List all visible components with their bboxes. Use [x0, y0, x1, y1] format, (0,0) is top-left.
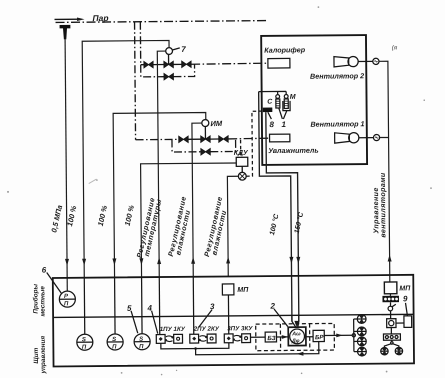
signal lamp Л3 [357, 337, 366, 346]
arrow down on feedback wire ИМ [112, 258, 116, 265]
position indicator SP2 [107, 277, 124, 350]
humidifier steam distributor [270, 134, 290, 142]
button 3КУ [242, 334, 251, 343]
steam main header pipe [56, 21, 269, 23]
actuator stem of valve 7 [168, 54, 170, 64]
svg-text:1ПУ 1КУ: 1ПУ 1КУ [160, 326, 186, 333]
actuator stem of valve ИМ [204, 126, 206, 139]
svg-text:Ѕ: Ѕ [112, 337, 116, 343]
wire БЗ to АР with arrow [276, 335, 288, 339]
svg-text:Приборыместные: Приборыместные [31, 283, 46, 316]
fan motors control bus [379, 61, 390, 282]
lamp distribution bus [354, 319, 358, 352]
feedback wire from КДУ (100%) [141, 163, 238, 277]
DUCT-BOX [245, 35, 380, 176]
control valve VIM [201, 136, 210, 142]
signal lamp Л5 [381, 347, 388, 354]
wire button station to relay 9 [396, 322, 404, 324]
link arrows 1ПУ-1КУ [165, 336, 174, 342]
svg-text:2ПУ 2КУ: 2ПУ 2КУ [193, 326, 220, 333]
wire button station to strip X2 [390, 328, 392, 334]
control wire humidity regulation to КДУ [227, 176, 239, 276]
arrow up on humidity control wire 1 [191, 257, 195, 264]
control wire temperature regulation to actuator 7 [157, 51, 167, 277]
svg-text:0,5 МПа: 0,5 МПа [49, 204, 64, 233]
Y-split wires to lamps [384, 344, 399, 348]
position indicator SP1 [76, 278, 93, 351]
signal lamp Л1 [357, 315, 366, 324]
svg-text:П: П [82, 345, 87, 351]
wet bulb sensor M terminal [284, 95, 288, 99]
lamp bus junction [352, 334, 355, 337]
starter МП2 box [384, 282, 397, 294]
regulator АР square [288, 327, 306, 346]
leader to relay 9 [406, 303, 408, 316]
starter МП1 box [222, 284, 234, 334]
svg-text:150 °С: 150 °С [293, 211, 306, 235]
svg-text:Щитуправления: Щитуправления [33, 336, 47, 375]
svg-text:2: 2 [269, 302, 275, 311]
VALVE-GROUPS [135, 44, 270, 181]
svg-text:3ПУ 3КУ: 3ПУ 3КУ [227, 325, 253, 332]
link arrows 2ПУ-2КУ [198, 336, 207, 342]
junction on bottom bus [194, 347, 197, 350]
button 1КУ [174, 334, 183, 343]
КДУ drive stem [241, 166, 243, 172]
fan 1 symbol [335, 133, 359, 144]
leader to label 7 [173, 48, 180, 50]
button 3ПУ [224, 334, 233, 343]
svg-text:100 %: 100 % [96, 204, 109, 227]
arrow down on 0,5 МПа wire [65, 259, 69, 266]
bypass pipe of heater valve station [141, 64, 195, 77]
button station box [387, 319, 396, 328]
block БР [313, 330, 324, 341]
motor M2 [373, 58, 379, 64]
svg-text:Регулированиевлажности: Регулированиевлажности [202, 195, 231, 259]
svg-text:9: 9 [403, 294, 408, 303]
svg-text:Вентилятор 1: Вентилятор 1 [310, 119, 364, 128]
pressure gauge РП [59, 291, 75, 307]
svg-text:Управлениевентиляторами: Управлениевентиляторами [372, 172, 388, 238]
wet bulb sensor M element [284, 99, 288, 109]
regulator dashed enclosure [256, 323, 335, 350]
svg-text:П: П [139, 344, 144, 350]
svg-text:100 %: 100 % [123, 204, 136, 227]
branch pipe to heater control valves [139, 22, 141, 65]
psychrometer wiring bus [259, 91, 287, 94]
leader to label 5 [131, 311, 138, 334]
svg-text:С: С [267, 99, 273, 106]
level sensor 8 body [263, 108, 273, 113]
wire into button 1ПУ [158, 277, 161, 334]
svg-text:Увлажнитель: Увлажнитель [268, 146, 319, 155]
control wire humidity regulation to actuator ИМ [192, 123, 203, 277]
pipe from valve station to humidifier distributor [228, 137, 269, 140]
svg-text:Аω: Аω [291, 331, 301, 337]
steam pipe through heater valve station [141, 64, 144, 66]
switch SA [388, 302, 396, 319]
svg-text:КДУ: КДУ [234, 150, 249, 157]
PANEL [31, 262, 414, 374]
leader to label 4 [152, 311, 158, 334]
SIGNAL-LINES [48, 37, 392, 324]
arrow down on 100C wire [289, 257, 293, 264]
signal lamp Л2 [357, 327, 366, 336]
arrow down on feedback wire КДУ [139, 258, 143, 265]
feedback wire from actuator 7 (100%) [82, 40, 171, 277]
actuator 7 (membrane drive) [166, 48, 173, 55]
shutoff valve V3 [179, 136, 188, 142]
arrow down on 150C wire [296, 257, 300, 264]
pipe from valve station to heater [191, 63, 268, 64]
steam flow direction arrow [54, 17, 84, 21]
air handling unit enclosure [261, 35, 367, 165]
wet bulb water cup [283, 101, 290, 111]
svg-text:БЗ: БЗ [267, 335, 275, 342]
arrow down on feedback wire 7 [82, 259, 86, 266]
sensor input arrow into АР [294, 321, 299, 327]
svg-text:Пар: Пар [92, 13, 108, 23]
heater (Калорифер) body [268, 58, 290, 68]
control panel enclosure [53, 275, 414, 367]
dry bulb sensor C terminal [276, 95, 280, 99]
terminal strip X2 [383, 334, 400, 340]
steam pipe through humidifier valve station [136, 138, 179, 140]
svg-text:6: 6 [42, 266, 47, 275]
svg-text:1: 1 [281, 120, 286, 129]
motor M1 [373, 134, 379, 140]
wire 3КУ to БЗ [250, 336, 265, 338]
button 2КУ [207, 334, 216, 343]
branch pipe to humidifier valves [135, 22, 136, 140]
STEAM-HEADER [54, 12, 269, 141]
svg-text:100 °С: 100 °С [268, 212, 281, 236]
svg-text:4: 4 [146, 304, 152, 313]
svg-text:ИМ: ИМ [210, 119, 222, 128]
svg-text:8: 8 [269, 120, 274, 129]
leader to label 6 [47, 272, 62, 293]
sensor wire dry/wet bulb to regulator (100 C) [259, 91, 292, 321]
feedback wire БР to buttons [196, 342, 319, 355]
svg-text:3: 3 [210, 302, 215, 311]
dashed link КДУ to level sensor 8 [246, 111, 264, 176]
КДУ link pipe (dashed) [240, 140, 242, 157]
svg-text:Ѕ: Ѕ [139, 337, 143, 343]
signal lamp Л6 [395, 347, 402, 354]
wire АР to БР [306, 336, 313, 338]
control valve V7 [164, 61, 173, 67]
wire into button 2ПУ [192, 277, 195, 334]
leader to label 3 [199, 310, 213, 328]
signal lamp Л4 [357, 347, 366, 356]
svg-text:7: 7 [181, 45, 186, 54]
terminal strip X1 [382, 294, 399, 303]
feedback wire from actuator ИМ (100%) [113, 113, 207, 278]
regulator АР circle [290, 329, 305, 345]
actuator ИМ (electric drive) [202, 120, 209, 127]
КДУ drive motor [238, 172, 246, 180]
arrow left on feedback wire [296, 352, 303, 356]
arrow up on fan control bus [388, 255, 392, 262]
arrow up on temperature control wire [157, 257, 161, 264]
bypass valve VB1 [164, 73, 173, 79]
shutoff valve V2 [182, 61, 191, 67]
sensor wire level sensor to regulator (150 C) [266, 112, 299, 322]
buttons bottom bus [161, 343, 229, 349]
svg-text:БР: БР [315, 334, 324, 341]
leader to label 8 [268, 112, 272, 119]
svg-text:Регулированиевлажности: Регулированиевлажности [166, 195, 195, 259]
wire fan2 to motor2 [358, 60, 373, 62]
svg-text:МП: МП [399, 285, 411, 292]
svg-text:Вентилятор 2: Вентилятор 2 [310, 71, 364, 80]
shutoff valve V1 [144, 61, 153, 67]
button 1ПУ [156, 335, 165, 344]
wire АР inputs inside panel [292, 315, 299, 327]
svg-text:М: М [290, 94, 296, 101]
svg-text:5: 5 [127, 304, 132, 313]
svg-text:П: П [64, 301, 69, 307]
svg-text:Калорифер: Калорифер [264, 45, 305, 54]
leader lines to electrodes label 1 [279, 108, 287, 119]
button 2ПУ [190, 334, 199, 343]
wire fan1 to motor1 [359, 137, 374, 139]
bypass valve VB2 [201, 149, 210, 155]
panel row divider [53, 314, 413, 317]
impulse wire 0,5 МПа from steam tap to gauge РП [65, 39, 67, 291]
wire БР to lamp bus with arrow [324, 333, 352, 337]
svg-text:Дφ: Дφ [291, 338, 300, 344]
svg-text:Ѕ: Ѕ [82, 337, 86, 343]
block БЗ [265, 332, 276, 342]
link arrows 3ПУ-3КУ [233, 335, 242, 341]
svg-text:П: П [112, 344, 117, 350]
svg-text:МП: МП [237, 287, 249, 294]
position indicator SP3 [134, 277, 151, 350]
КДУ unit box [236, 157, 248, 166]
dry bulb sensor C element [276, 99, 280, 108]
fan 2 symbol [334, 56, 358, 67]
svg-text:(я: (я [392, 45, 398, 51]
arrow up on humidity control wire 2 [226, 256, 230, 263]
bypass pipe of humidifier valve station [172, 139, 236, 152]
relay 9 body [404, 316, 412, 328]
junction under strip X2 [391, 340, 393, 344]
leader to label 2 [274, 309, 288, 327]
shutoff valve V4 [219, 136, 228, 142]
pressure tap fitting on steam line [60, 25, 71, 39]
